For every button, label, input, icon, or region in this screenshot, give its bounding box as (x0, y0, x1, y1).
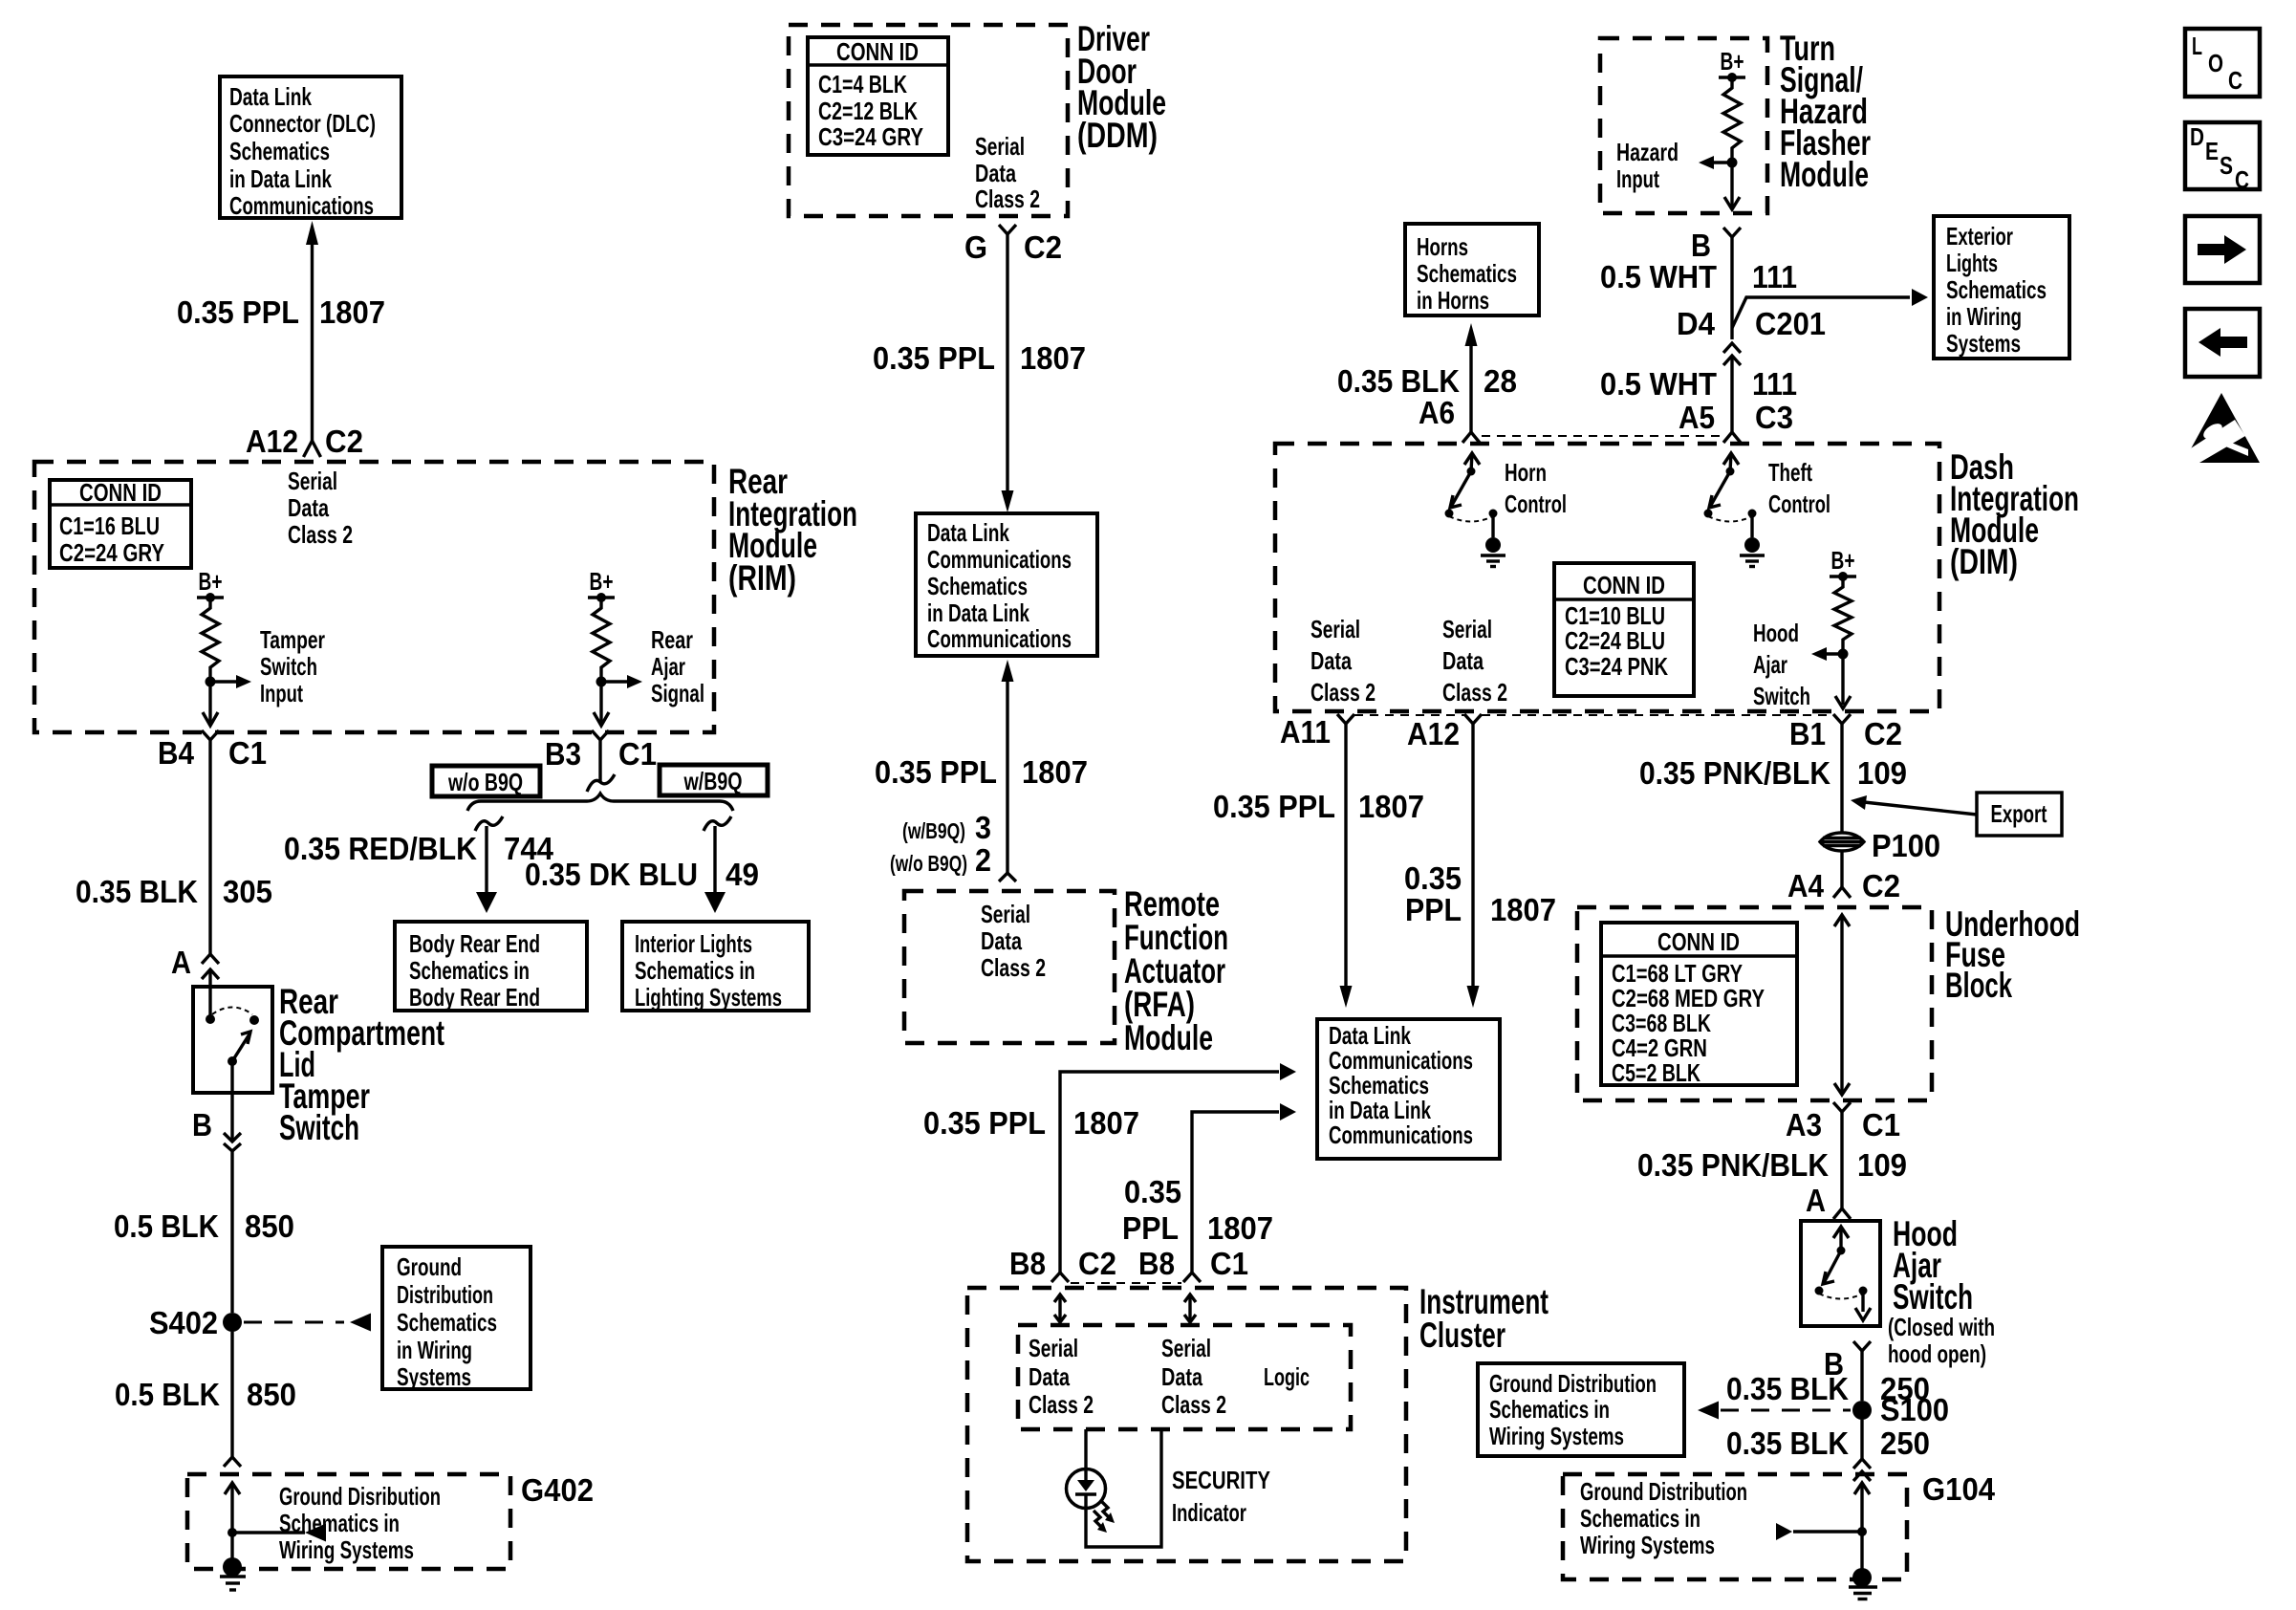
thin dashed edge line at cluster top (1071, 1282, 1181, 1284)
svg-text:w/B9Q: w/B9Q (683, 767, 743, 795)
svg-text:Systems: Systems (397, 1362, 471, 1391)
svg-text:Hood: Hood (1753, 619, 1799, 647)
switch blade with arrow (232, 1033, 250, 1061)
svg-text:1807: 1807 (319, 294, 385, 330)
wire break symbol C201 (1723, 343, 1741, 353)
svg-text:Class 2: Class 2 (975, 185, 1040, 213)
reference box: Data Link Connector (DLC) Schematics (220, 76, 401, 218)
svg-text:109: 109 (1857, 1147, 1907, 1183)
wire down with arrow at RIM edge (208, 682, 211, 725)
svg-text:C: C (2228, 66, 2242, 95)
wire 109 upper (1840, 724, 1843, 833)
connector symbol B8/C1 (1183, 1273, 1201, 1282)
svg-text:Control: Control (1768, 490, 1830, 518)
svg-text:Schematics: Schematics (927, 572, 1028, 600)
connector symbol A12/C2 (304, 441, 321, 457)
svg-text:Data: Data (1442, 646, 1484, 675)
svg-text:Module: Module (1124, 1018, 1213, 1057)
switch internals (hood ajar) (1833, 1227, 1849, 1238)
reference box: Export (1977, 793, 2062, 836)
svg-text:PPL: PPL (1405, 892, 1462, 927)
svg-text:0.35 PNK/BLK: 0.35 PNK/BLK (1639, 755, 1830, 791)
svg-text:C: C (2235, 165, 2249, 194)
svg-text:2: 2 (975, 842, 991, 878)
svg-text:Indicator: Indicator (1172, 1498, 1246, 1527)
inner dashed logic box (1018, 1325, 1351, 1429)
connector symbol A5/C3 (1723, 432, 1741, 443)
svg-text:(DIM): (DIM) (1950, 542, 2018, 581)
svg-text:Data: Data (975, 159, 1016, 187)
svg-text:Body Rear End: Body Rear End (409, 983, 540, 1012)
svg-text:C3=24 PNK: C3=24 PNK (1565, 652, 1668, 681)
svg-text:Input: Input (1616, 164, 1659, 193)
svg-text:Exterior: Exterior (1946, 222, 2013, 250)
switch pivot (227, 1056, 237, 1066)
svg-text:Schematics in: Schematics in (635, 956, 755, 985)
module box: Driver Door Module (DDM) (789, 25, 1068, 216)
svg-text:B+: B+ (199, 567, 223, 596)
svg-text:C2=12 BLK: C2=12 BLK (818, 97, 918, 125)
svg-text:Horns: Horns (1417, 232, 1468, 261)
Export reference arrow (1864, 802, 1977, 815)
thin dashed edge line DIM bottom (1354, 714, 1464, 716)
right arrow icon (2198, 235, 2246, 264)
svg-text:Ground Distribution: Ground Distribution (1580, 1477, 1747, 1506)
reference box: Data Link Communications Schematics (lower) (1317, 1019, 1500, 1159)
junction dot (596, 677, 607, 687)
svg-text:C2: C2 (1864, 716, 1902, 751)
svg-text:850: 850 (247, 1377, 296, 1412)
svg-text:S100: S100 (1880, 1392, 1949, 1427)
svg-text:0.35 PPL: 0.35 PPL (177, 294, 299, 330)
svg-text:Horn: Horn (1505, 458, 1547, 487)
wire down with arrow at RIM edge (599, 682, 602, 725)
svg-text:Hazard: Hazard (1616, 138, 1679, 166)
svg-text:CONN ID: CONN ID (1657, 927, 1740, 956)
svg-text:28: 28 (1484, 363, 1517, 399)
wire 111 lower (1730, 356, 1733, 432)
svg-text:C3: C3 (1755, 400, 1793, 435)
connector symbol (RFA serial data) (999, 873, 1016, 881)
svg-text:C1: C1 (618, 736, 657, 772)
legend box LOC (2185, 29, 2260, 97)
svg-text:B3: B3 (545, 736, 581, 772)
svg-text:C2: C2 (1024, 229, 1062, 265)
svg-text:w/o B9Q: w/o B9Q (447, 768, 523, 796)
CONN ID table (Underhood Fuse Block) (1601, 923, 1797, 1085)
svg-text:B4: B4 (158, 735, 195, 771)
svg-text:Cluster: Cluster (1419, 1316, 1505, 1355)
svg-text:C2: C2 (1078, 1246, 1116, 1281)
svg-text:A5: A5 (1679, 400, 1715, 435)
ESD warning symbol (2183, 393, 2260, 463)
svg-text:G402: G402 (521, 1472, 594, 1508)
junction dot (1857, 1527, 1867, 1536)
ground box G402 (187, 1474, 510, 1569)
svg-text:0.35 PPL: 0.35 PPL (875, 754, 997, 790)
svg-text:B8: B8 (1009, 1246, 1046, 1281)
reference stub (1793, 1530, 1862, 1533)
double-headed arrow (serial data 1) (1058, 1295, 1061, 1321)
svg-text:1807: 1807 (1022, 754, 1088, 790)
switch box: Hood Ajar Switch (1801, 1221, 1880, 1326)
svg-text:in Wiring: in Wiring (1946, 302, 2022, 331)
svg-text:Block: Block (1945, 966, 2012, 1005)
switch contact (NO) (249, 1015, 259, 1025)
svg-text:B+: B+ (1721, 47, 1744, 76)
svg-text:3: 3 (975, 810, 991, 845)
connector symbol B8/C2 (1051, 1273, 1069, 1282)
CONN ID table (DIM) (1554, 563, 1694, 696)
svg-text:1807: 1807 (1358, 789, 1424, 824)
module box: Rear Integration Module (RIM) (34, 462, 714, 732)
wire to ground with up arrow (1860, 1483, 1863, 1577)
svg-text:A6: A6 (1419, 395, 1455, 430)
double-headed arrow (serial data 2) (1188, 1295, 1191, 1321)
svg-text:A11: A11 (1280, 714, 1331, 750)
junction dot (1838, 649, 1849, 660)
svg-text:D: D (2190, 122, 2204, 151)
resistor (hazard input pull-up) (1723, 77, 1741, 163)
reference arrow (1698, 1402, 1719, 1420)
legend box arrow left (2185, 309, 2260, 377)
LED emission arrows (1101, 1501, 1110, 1518)
module box: Instrument Cluster (967, 1288, 1406, 1561)
svg-text:in Data Link: in Data Link (927, 598, 1029, 627)
svg-text:CONN ID: CONN ID (79, 478, 162, 507)
svg-text:Export: Export (1991, 799, 2047, 828)
reference box: Interior Lights Schematics (622, 922, 809, 1011)
svg-text:Connector (DLC): Connector (DLC) (229, 109, 376, 138)
svg-text:Switch: Switch (260, 652, 317, 681)
svg-text:Schematics in: Schematics in (1580, 1504, 1700, 1533)
wire break symbol (1853, 1459, 1871, 1469)
CONN ID table (RIM) (50, 480, 191, 568)
switch blade (1824, 1251, 1841, 1283)
switch contact (left) (1815, 1287, 1824, 1295)
wire 250 upper (1860, 1351, 1863, 1401)
svg-text:C1: C1 (1210, 1246, 1248, 1281)
wire G down to Data Link box with arrow (1006, 234, 1008, 491)
svg-text:0.5 BLK: 0.5 BLK (115, 1377, 220, 1412)
svg-text:Ajar: Ajar (651, 652, 685, 681)
connector symbol B1/C2 (1833, 714, 1851, 724)
svg-text:Wiring Systems: Wiring Systems (1580, 1531, 1715, 1559)
wire A11 down to Data Link box with arrow (1344, 724, 1347, 987)
svg-text:A4: A4 (1787, 868, 1825, 903)
left branch wire (w/o B9Q) with squiggle and arrow (475, 816, 503, 831)
svg-text:Rear: Rear (651, 625, 693, 654)
svg-text:Interior Lights: Interior Lights (635, 929, 752, 958)
svg-text:Serial: Serial (1442, 615, 1492, 643)
option tag box: w/B9Q (660, 765, 768, 795)
svg-text:in Horns: in Horns (1417, 286, 1489, 315)
svg-text:Switch: Switch (1893, 1277, 1973, 1316)
svg-text:Switch: Switch (1753, 682, 1810, 710)
svg-text:Lights: Lights (1946, 249, 1998, 277)
connector symbol A12 (1464, 714, 1482, 724)
svg-text:B: B (1691, 228, 1711, 263)
dashed reference line from S100 (1721, 1409, 1851, 1412)
svg-text:111: 111 (1752, 366, 1797, 402)
svg-text:Theft: Theft (1768, 458, 1812, 487)
reference box: Body Rear End Schematics (395, 922, 587, 1011)
wire B8/C2 elbow to Data Link box with arrow (1060, 1072, 1279, 1273)
connector symbol G/C2 (999, 225, 1016, 234)
svg-text:0.35 RED/BLK: 0.35 RED/BLK (284, 831, 477, 866)
svg-text:1807: 1807 (1073, 1105, 1139, 1141)
reference box: Horns Schematics (1405, 224, 1539, 315)
svg-text:(RIM): (RIM) (728, 558, 796, 598)
svg-text:G104: G104 (1922, 1471, 1996, 1507)
svg-text:in Wiring: in Wiring (397, 1336, 472, 1364)
svg-text:305: 305 (223, 874, 272, 909)
svg-text:A12: A12 (1407, 716, 1460, 751)
svg-text:Body Rear End: Body Rear End (409, 929, 540, 958)
svg-text:0.35: 0.35 (1124, 1174, 1181, 1209)
svg-text:Communications: Communications (1329, 1120, 1473, 1149)
wire to ground with up arrow (230, 1483, 233, 1567)
reference box: Ground Distribution Schematics (S402) (382, 1247, 531, 1389)
svg-text:Serial: Serial (975, 132, 1025, 161)
junction dot (1727, 158, 1738, 168)
svg-text:0.5 BLK: 0.5 BLK (114, 1208, 219, 1244)
svg-text:1807: 1807 (1490, 892, 1556, 927)
svg-text:C2: C2 (325, 424, 363, 459)
wire 850 lower (230, 1332, 233, 1457)
svg-text:SECURITY: SECURITY (1172, 1466, 1270, 1494)
resistor (rear ajar pull-up) (593, 598, 610, 682)
connector symbol B (flasher) (1723, 228, 1741, 237)
svg-text:Data: Data (1161, 1362, 1202, 1391)
svg-text:Data Link: Data Link (229, 82, 312, 111)
svg-text:S402: S402 (149, 1305, 218, 1340)
switch pivot (1837, 1247, 1846, 1255)
arrow to Rear Ajar Signal (601, 680, 629, 683)
connector symbol A6 (1462, 432, 1480, 443)
arrow to Hazard Input (1712, 161, 1732, 163)
svg-text:Switch: Switch (279, 1108, 359, 1147)
switch box: Rear Compartment Lid Tamper Switch (193, 987, 272, 1093)
svg-text:Serial: Serial (1310, 615, 1360, 643)
reference arrow (350, 1314, 371, 1332)
svg-text:0.35: 0.35 (1404, 860, 1462, 896)
svg-text:0.35 DK BLU: 0.35 DK BLU (525, 857, 698, 892)
svg-text:CONN ID: CONN ID (1583, 571, 1665, 599)
svg-text:C2=24 GRY: C2=24 GRY (59, 538, 164, 567)
wire B4 down (208, 740, 211, 954)
svg-text:B1: B1 (1789, 716, 1826, 751)
svg-text:(DDM): (DDM) (1077, 116, 1158, 155)
svg-text:(w/B9Q): (w/B9Q) (902, 818, 965, 843)
svg-text:C2=24 BLU: C2=24 BLU (1565, 626, 1665, 655)
arrow to Hood Ajar Switch label (1825, 652, 1843, 655)
svg-text:C1: C1 (1862, 1107, 1900, 1142)
svg-text:A3: A3 (1786, 1107, 1822, 1142)
thin dashed edge line DIM top (1482, 435, 1722, 437)
LED security indicator (1084, 1429, 1087, 1481)
svg-text:0.5 WHT: 0.5 WHT (1600, 366, 1717, 402)
svg-text:Schematics: Schematics (1417, 259, 1517, 288)
svg-text:Class 2: Class 2 (1442, 678, 1507, 707)
svg-text:(Closed with: (Closed with (1888, 1313, 1995, 1341)
wire A6 up to Horns box with arrow (1469, 344, 1472, 432)
svg-text:Class 2: Class 2 (981, 953, 1046, 982)
svg-text:49: 49 (726, 857, 759, 892)
junction dot (227, 1528, 237, 1537)
svg-text:Ground Disribution: Ground Disribution (279, 1482, 441, 1511)
dashed reference line from S402 (244, 1321, 344, 1324)
svg-text:hood open): hood open) (1888, 1339, 1986, 1368)
connector symbol A3/C1 (1833, 1102, 1851, 1112)
svg-text:Schematics in: Schematics in (409, 956, 530, 985)
wire down with arrow at module edge (1730, 163, 1733, 207)
svg-text:A12: A12 (246, 424, 298, 459)
svg-text:0.35 PPL: 0.35 PPL (923, 1105, 1046, 1141)
wire down with arrow at DIM edge (1841, 654, 1844, 705)
svg-text:Distribution: Distribution (397, 1280, 493, 1309)
svg-text:C3=24 GRY: C3=24 GRY (818, 122, 923, 151)
svg-text:Class 2: Class 2 (288, 520, 353, 549)
junction dot (206, 677, 216, 687)
wire A12 to DLC box with up arrow (311, 241, 314, 444)
svg-text:Class 2: Class 2 (1310, 678, 1375, 707)
svg-text:C201: C201 (1755, 306, 1826, 341)
svg-text:Class 2: Class 2 (1029, 1390, 1094, 1419)
svg-text:Lighting Systems: Lighting Systems (635, 983, 782, 1012)
svg-text:Schematics: Schematics (229, 137, 330, 165)
svg-text:Schematics: Schematics (397, 1308, 497, 1337)
svg-text:G: G (964, 229, 987, 265)
svg-text:0.5 WHT: 0.5 WHT (1600, 259, 1717, 294)
svg-text:Data: Data (1029, 1362, 1070, 1391)
wire 111 upper (1730, 237, 1733, 339)
switch travel arc (212, 1008, 252, 1015)
splice S402 (223, 1313, 242, 1332)
CONN ID table (DDM) (808, 37, 948, 155)
wire 250 lower (1860, 1420, 1863, 1459)
switch contact (common) (206, 1014, 215, 1024)
connector stem with break squiggle (598, 740, 601, 782)
wire A12 down to Data Link box with arrow (1471, 724, 1474, 987)
svg-text:Module: Module (1780, 155, 1869, 194)
connector symbol B3/C1 (592, 730, 609, 740)
svg-text:Schematics: Schematics (1946, 275, 2047, 304)
svg-text:0.35 BLK: 0.35 BLK (1337, 363, 1460, 399)
legend box DESC (2185, 122, 2260, 189)
svg-text:Control: Control (1505, 490, 1567, 518)
wire below P100 (1840, 851, 1843, 887)
svg-text:109: 109 (1857, 755, 1907, 791)
module box: Turn Signal/Hazard Flasher Module (1600, 38, 1767, 213)
svg-text:C1: C1 (228, 735, 267, 771)
svg-text:0.35 BLK: 0.35 BLK (1726, 1425, 1849, 1461)
svg-text:850: 850 (245, 1208, 294, 1244)
wire break symbol (202, 954, 219, 964)
svg-text:Systems: Systems (1946, 329, 2021, 358)
svg-text:C2: C2 (1862, 868, 1900, 903)
reference box: Ground Distribution Schematics (S100) (1478, 1363, 1684, 1456)
connector symbol A4/C2 (1833, 887, 1851, 898)
wire B8/C1 elbow to Data Link box with arrow (1192, 1112, 1279, 1273)
wire 109 lower (1840, 1112, 1843, 1208)
splice S100 (1852, 1401, 1872, 1420)
wire 850 upper (230, 1151, 233, 1313)
svg-text:Communications: Communications (927, 545, 1072, 574)
svg-text:S: S (2220, 151, 2233, 180)
svg-text:Wiring Systems: Wiring Systems (279, 1535, 414, 1564)
pass-through grommet P100 (1820, 833, 1864, 851)
right branch wire (w/B9Q) with squiggle and arrow (704, 816, 731, 831)
resistor (hood ajar pull-up) (1834, 577, 1852, 654)
svg-text:B8: B8 (1138, 1246, 1175, 1281)
internal wire with arrows (fuse block pass-through) (1840, 915, 1843, 1095)
resistor (tamper switch pull-up) (202, 598, 219, 682)
switch contact (right) (1859, 1287, 1868, 1295)
svg-text:0.35 PPL: 0.35 PPL (1213, 789, 1335, 824)
svg-text:Logic: Logic (1264, 1362, 1310, 1391)
legend box arrow right (2185, 216, 2260, 283)
ground symbol G402 (223, 1557, 242, 1577)
svg-text:Serial: Serial (1029, 1334, 1078, 1362)
svg-text:Schematics in: Schematics in (279, 1509, 400, 1537)
svg-text:D4: D4 (1677, 306, 1716, 341)
arrow to Tamper Switch Input (210, 680, 238, 683)
ground symbol G104 (1852, 1568, 1872, 1587)
connector symbol B4/C1 (202, 730, 219, 740)
module box: Underhood Fuse Block (1577, 907, 1932, 1100)
svg-text:Ground: Ground (397, 1252, 462, 1281)
wire break symbol (224, 1457, 241, 1467)
distribution brace (467, 794, 733, 811)
svg-text:P100: P100 (1872, 828, 1940, 863)
wire B down (230, 1061, 233, 1142)
svg-text:Data: Data (1310, 646, 1352, 675)
left arrow icon (2199, 328, 2247, 357)
svg-text:E: E (2205, 137, 2219, 165)
svg-text:in Data Link: in Data Link (229, 164, 332, 193)
svg-text:Serial: Serial (981, 900, 1030, 928)
connector symbol B (hood ajar) (1853, 1341, 1871, 1351)
svg-text:250: 250 (1880, 1425, 1930, 1461)
svg-text:C5=2 BLK: C5=2 BLK (1612, 1058, 1700, 1087)
svg-text:Class 2: Class 2 (1161, 1390, 1226, 1419)
module box: Dash Integration Module (DIM) (1275, 444, 1939, 711)
svg-text:Input: Input (260, 679, 303, 707)
svg-text:Serial: Serial (288, 467, 337, 495)
svg-text:Data Link: Data Link (927, 518, 1009, 547)
option tag box: w/o B9Q (432, 766, 540, 796)
svg-text:Serial: Serial (1161, 1334, 1211, 1362)
svg-text:Communications: Communications (229, 191, 374, 220)
reference arrow (1776, 1523, 1792, 1540)
svg-text:111: 111 (1752, 259, 1797, 294)
svg-text:A: A (171, 945, 191, 980)
svg-text:B: B (192, 1107, 212, 1142)
svg-text:B+: B+ (1831, 546, 1855, 575)
svg-text:Wiring Systems: Wiring Systems (1489, 1422, 1624, 1450)
svg-text:C1=4 BLK: C1=4 BLK (818, 70, 907, 98)
svg-text:CONN ID: CONN ID (836, 37, 919, 66)
svg-text:0.35 BLK: 0.35 BLK (76, 874, 198, 909)
svg-text:1807: 1807 (1020, 340, 1086, 376)
svg-text:L: L (2192, 32, 2202, 60)
svg-text:Ajar: Ajar (1753, 650, 1787, 679)
svg-text:Data: Data (288, 493, 329, 522)
reference arrow (305, 1524, 326, 1542)
branch to Exterior Lights with arrow (1732, 297, 1910, 328)
connector symbol A11 (1337, 714, 1354, 724)
